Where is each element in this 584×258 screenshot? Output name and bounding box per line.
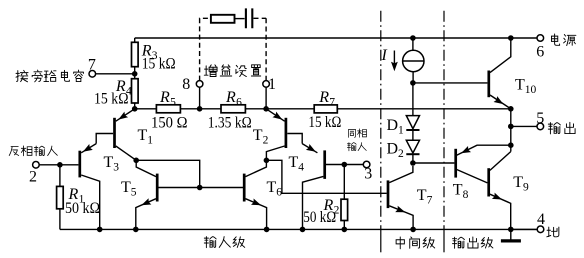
pin number labels [29, 44, 545, 228]
svg-text:2: 2 [263, 134, 269, 146]
label non-inverting input (Chinese, two lines) [347, 129, 366, 151]
dashed gain-set box with bypass resistor and capacitor [200, 18, 211, 80]
input resistor R1 [39, 165, 60, 187]
wire T8 base [413, 162, 455, 164]
wire ground rail [60, 228, 537, 230]
junction (266.6,229.4) [264, 227, 270, 233]
svg-text:5: 5 [170, 97, 176, 109]
wire T10 base [413, 82, 488, 84]
junction (134.7,108.8) [132, 106, 138, 112]
svg-text:T: T [515, 77, 525, 94]
wire top supply rail [135, 37, 537, 39]
wire resistor chain R5 R6 R7 row [135, 108, 511, 110]
resistor R4 [132, 79, 139, 103]
pin 1 terminal [263, 81, 270, 88]
wire current mirror link [136, 160, 200, 187]
pin 4 terminal [537, 226, 544, 233]
current source I [412, 38, 414, 50]
stage divider dash-dot left [380, 11, 382, 230]
resistor R6 [221, 105, 245, 113]
pin 5 terminal [537, 123, 544, 130]
transistor T9 [487, 168, 490, 196]
transistor T6 [243, 174, 246, 202]
svg-text:3: 3 [113, 162, 119, 174]
svg-text:T: T [121, 179, 131, 196]
svg-text:15 kΩ: 15 kΩ [142, 55, 176, 72]
svg-text:10: 10 [525, 84, 537, 96]
svg-text:R: R [318, 89, 329, 106]
svg-text:R: R [225, 89, 236, 106]
junction (266.1,108.8) [263, 106, 269, 112]
svg-text:1: 1 [398, 125, 404, 137]
svg-text:1: 1 [268, 76, 276, 93]
transistor T1 [113, 118, 116, 148]
pin 6 terminal [537, 35, 544, 42]
ground symbol [510, 229, 512, 239]
transistor T8 [454, 149, 457, 178]
transistor T4 [323, 150, 326, 179]
svg-text:7: 7 [329, 97, 335, 109]
transistor T5 [156, 174, 159, 202]
wire pin1 to chain [265, 87, 267, 109]
junction (510.8,229.4) [508, 227, 514, 233]
wire second stage feed to T7 base [266, 160, 386, 193]
junction (135.8,229.4) [133, 227, 139, 233]
label ground (Chinese) [547, 227, 559, 237]
svg-text:2: 2 [398, 148, 404, 160]
svg-text:T: T [267, 179, 277, 196]
junction (199.6,108.8) [197, 106, 203, 112]
svg-text:6: 6 [536, 44, 544, 61]
label input stage (Chinese) [204, 237, 244, 248]
junction (412.9,163) [410, 160, 416, 166]
pin 2 terminal [33, 162, 40, 169]
junction (136.2,160.3) [133, 158, 139, 164]
svg-text:15 kΩ: 15 kΩ [94, 91, 129, 108]
svg-text:5: 5 [131, 186, 137, 198]
resistor R5 [156, 105, 180, 113]
svg-text:7: 7 [427, 195, 433, 207]
svg-text:7: 7 [88, 57, 96, 74]
svg-text:T: T [289, 154, 299, 171]
svg-text:T: T [253, 127, 263, 144]
stage divider dash-dot right [443, 11, 445, 230]
svg-text:1.35 kΩ: 1.35 kΩ [208, 115, 252, 132]
label power (Chinese) [551, 34, 575, 46]
junction (344.3,229.4) [342, 227, 348, 233]
junction (266.4,160.3) [264, 158, 270, 164]
terminal circles [33, 35, 544, 233]
label middle stage (Chinese) [396, 237, 435, 249]
junction (302.5,229.4) [300, 227, 306, 233]
label bypass-capacitor (Chinese) [16, 70, 83, 82]
capacitor plates [246, 8, 252, 28]
svg-text:4: 4 [298, 162, 304, 174]
svg-text:I: I [381, 47, 388, 64]
transistor T10 [487, 71, 490, 98]
junction (510.8,145.2) [508, 142, 514, 148]
junction (59.9,164.8) [57, 162, 63, 168]
component value labels [65, 43, 537, 226]
junction (413.1,229.4) [410, 227, 416, 233]
pin 3 terminal [363, 161, 370, 168]
junction (99.7,229.4) [97, 227, 103, 233]
svg-text:4: 4 [537, 211, 545, 228]
junction (412.9,82.9) [410, 80, 416, 86]
label output stage (Chinese) [453, 237, 493, 248]
resistor R7 [314, 105, 337, 113]
wire R3 to R4 [134, 67, 136, 79]
svg-text:3: 3 [364, 166, 372, 183]
junction (344.3,164.5) [342, 162, 348, 168]
svg-text:8: 8 [463, 189, 469, 201]
svg-text:50 kΩ: 50 kΩ [65, 200, 100, 217]
junction (134.7,73.8) [132, 71, 138, 77]
svg-text:6: 6 [236, 97, 242, 109]
transistor T3 [78, 151, 81, 178]
resistor R3 [132, 42, 139, 66]
wire pin8 to chain [199, 87, 201, 109]
svg-text:D: D [387, 117, 399, 134]
junction (510.8,38) [508, 35, 514, 41]
junction (412.9,38) [410, 35, 416, 41]
svg-text:150 Ω: 150 Ω [151, 115, 188, 132]
transistor T7 [387, 180, 390, 208]
junction (199.7,187.5) [197, 185, 203, 191]
transistor T2 [285, 118, 288, 148]
svg-text:1: 1 [147, 134, 153, 146]
wire R4 to chain [134, 103, 136, 109]
wire pin 7 bypass [96, 73, 135, 75]
diode D2 [412, 130, 414, 140]
svg-text:8: 8 [182, 76, 190, 93]
wire rail corner down to R3 [134, 38, 136, 42]
svg-text:T: T [104, 154, 114, 171]
wire pin5 output [511, 125, 537, 127]
junction (510.8,126.4) [508, 124, 514, 130]
label inverting input (Chinese) [9, 146, 57, 156]
wire output column [510, 109, 512, 152]
svg-text:R: R [159, 89, 170, 106]
emitter arrowheads [81, 62, 505, 216]
pin 7 terminal [89, 71, 96, 78]
pin 8 terminal [196, 81, 203, 88]
wire pin4 ground [511, 228, 537, 230]
svg-text:T: T [513, 174, 523, 191]
svg-text:6: 6 [276, 186, 282, 198]
svg-text:50 kΩ: 50 kΩ [303, 209, 336, 226]
label output (Chinese) [548, 122, 575, 134]
label gain-set (Chinese) [204, 65, 260, 77]
diode D1 [412, 83, 414, 116]
resistor R2 [343, 165, 345, 200]
svg-text:T: T [138, 127, 148, 144]
svg-text:9: 9 [523, 182, 529, 194]
svg-text:15 kΩ: 15 kΩ [308, 114, 341, 131]
svg-text:T: T [417, 187, 427, 204]
svg-text:2: 2 [29, 169, 37, 186]
svg-text:D: D [387, 141, 399, 158]
current source arrow [393, 51, 395, 68]
junction (510.8,108.8) [508, 106, 514, 112]
svg-text:T: T [453, 182, 463, 199]
svg-text:5: 5 [536, 110, 544, 127]
